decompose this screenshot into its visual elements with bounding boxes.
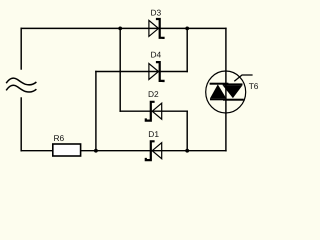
svg-text:D1: D1 bbox=[148, 129, 159, 139]
svg-text:T6: T6 bbox=[249, 81, 259, 91]
svg-text:D2: D2 bbox=[148, 89, 159, 99]
svg-text:R6: R6 bbox=[54, 133, 65, 143]
svg-text:D3: D3 bbox=[151, 8, 162, 18]
svg-text:D4: D4 bbox=[151, 50, 162, 60]
